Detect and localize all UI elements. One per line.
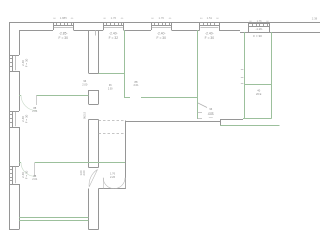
svg-text:1.76: 1.76	[111, 16, 117, 20]
wall green vertical x124	[124, 30, 126, 97]
svg-text:-1.26-: -1.26-	[255, 27, 262, 31]
svg-text:-2.40-: -2.40-	[157, 31, 166, 35]
wall left bottom end cap	[9, 229, 19, 231]
dashed overhang lines (inner corner)	[99, 120, 126, 122]
leader line to door label	[198, 103, 207, 108]
wall exterior top, outer face	[9, 22, 320, 24]
svg-text:-2.40-: -2.40-	[109, 31, 118, 35]
svg-text:F = 30: F = 30	[205, 36, 215, 40]
svg-text:F = 30: F = 30	[157, 36, 167, 40]
wall green horizontal G1 (y95) with door opening	[19, 95, 21, 97]
wall shaft left (green)	[244, 32, 246, 119]
wall column right edge	[125, 121, 127, 189]
wall band bottom step	[220, 120, 222, 126]
wall exterior top-right, inner face	[240, 32, 320, 34]
door D-G1 swing arc	[21, 95, 37, 111]
wall shaft cross (green)	[244, 84, 271, 86]
window LW1 (left wall)	[9, 55, 19, 72]
door D-G2 swing arc	[21, 163, 35, 177]
wall green horizontal G-mid (y97) with door opening	[124, 97, 130, 99]
window LW2 (left wall)	[9, 111, 19, 128]
svg-text:2.00: 2.00	[82, 82, 88, 86]
window W4	[200, 22, 220, 30]
door entrance double swing	[103, 178, 114, 189]
partition A door opening caps	[89, 73, 99, 75]
wall exterior left, inner face (segments between windows)	[19, 30, 21, 55]
window W3	[151, 22, 172, 30]
svg-text:F = 30: F = 30	[253, 34, 262, 38]
wall entrance baseline	[99, 188, 127, 190]
tick marks left of shaft wall	[241, 69, 244, 71]
window W1	[53, 22, 74, 30]
window W5	[249, 23, 270, 32]
svg-text:F = 32: F = 32	[109, 36, 119, 40]
door D-G1 leaf	[36, 95, 38, 105]
svg-text:96/2.0: 96/2.0	[84, 112, 87, 119]
wall band bottom edge west	[126, 121, 221, 123]
svg-text:1.76: 1.76	[257, 19, 263, 23]
wall exterior left, outer face	[9, 22, 11, 230]
door jamb tick at x197.5	[198, 112, 203, 114]
svg-text:20 E: 20 E	[256, 92, 262, 96]
wall green horizontal G2 (y162.5) with door opening	[19, 162, 21, 164]
window W2	[103, 22, 123, 30]
svg-text:2.01: 2.01	[32, 177, 38, 181]
svg-text:1.885: 1.885	[60, 16, 67, 20]
wall partition A left face	[88, 30, 90, 73]
wall green double G3 (y217.5/220)	[19, 217, 89, 219]
svg-text:1.51: 1.51	[207, 16, 213, 20]
svg-text:F = 30: F = 30	[24, 170, 28, 179]
svg-text:2.38: 2.38	[312, 17, 318, 21]
wall band bottom edge middle	[220, 119, 243, 121]
door D-G2 leaf	[34, 163, 36, 177]
terrace edge (green)	[220, 125, 280, 127]
svg-text:F = 30: F = 30	[24, 58, 28, 67]
partition A top junction stub	[95, 30, 97, 36]
window LW3 (left wall)	[9, 166, 19, 185]
wall green vertical x197.5	[197, 30, 199, 119]
svg-text:F = 30: F = 30	[24, 114, 28, 123]
svg-text:2.01: 2.01	[32, 109, 38, 113]
svg-text:2.01: 2.01	[133, 83, 139, 87]
svg-text:2.00: 2.00	[108, 88, 113, 91]
svg-text:1.76: 1.76	[159, 16, 165, 20]
wall corridor cross (green)	[99, 73, 125, 75]
svg-text:F = 30: F = 30	[59, 36, 69, 40]
svg-text:2.00: 2.00	[82, 170, 86, 176]
wall exterior top, inner face (segments between windows)	[19, 30, 53, 32]
wall shaft right (green)	[271, 32, 273, 119]
wall shaft bottom (green)	[243, 118, 271, 120]
tick below leader label	[209, 117, 213, 119]
door partition A lower leaf/arc	[89, 170, 97, 187]
svg-text:-2.85-: -2.85-	[59, 31, 68, 35]
partition A bottom end cap	[89, 229, 99, 231]
svg-text:1.76: 1.76	[110, 171, 116, 175]
svg-text:2.26: 2.26	[110, 175, 116, 179]
wall partition A right face	[98, 30, 100, 73]
svg-text:-2.40-: -2.40-	[205, 31, 214, 35]
